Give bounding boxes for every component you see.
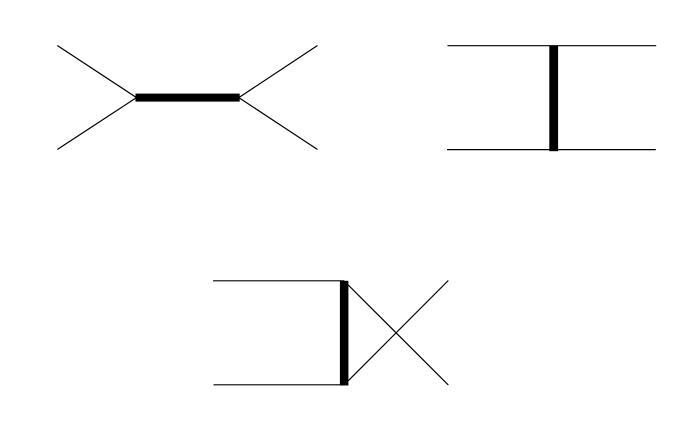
u-channel diagram: thick vertical propagator bar [340,281,349,386]
t-channel diagram: bottom horizontal line [447,149,656,151]
u-channel diagram: crossed outgoing line going up-right [344,281,448,385]
t-channel diagram: thick vertical propagator bar [549,46,558,151]
t-channel diagram: top horizontal line [448,45,657,47]
u-channel diagram: top horizontal line [213,280,344,282]
u-channel diagram: crossed outgoing line going down-right [344,281,448,385]
u-channel diagram: bottom horizontal line [214,384,345,386]
s-channel diagram: outgoing line lower-right [239,98,318,150]
s-channel diagram: thick horizontal propagator bar [136,94,240,102]
s-channel diagram: incoming line upper-left [57,46,136,98]
s-channel diagram: incoming line lower-left [57,98,136,150]
s-channel diagram: outgoing line upper-right [239,46,318,98]
